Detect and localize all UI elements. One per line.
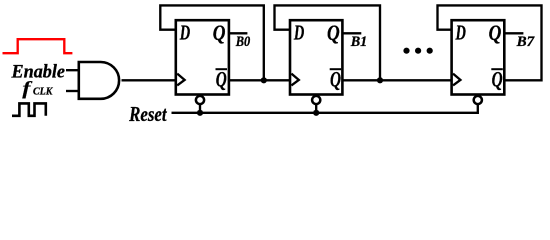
- svg-text:D: D: [455, 21, 466, 45]
- svg-text:B7: B7: [516, 34, 535, 50]
- svg-text:CLK: CLK: [33, 86, 53, 98]
- svg-text:f: f: [22, 80, 33, 100]
- svg-text:Q: Q: [327, 20, 340, 45]
- svg-text:B0: B0: [235, 34, 251, 50]
- svg-text:Q: Q: [213, 20, 226, 45]
- svg-text:Enable: Enable: [11, 63, 65, 83]
- svg-text:D: D: [293, 21, 304, 45]
- svg-text:Reset: Reset: [128, 102, 167, 126]
- svg-text:B1: B1: [350, 34, 367, 50]
- svg-text:D: D: [179, 21, 190, 45]
- svg-text:Q: Q: [489, 20, 502, 45]
